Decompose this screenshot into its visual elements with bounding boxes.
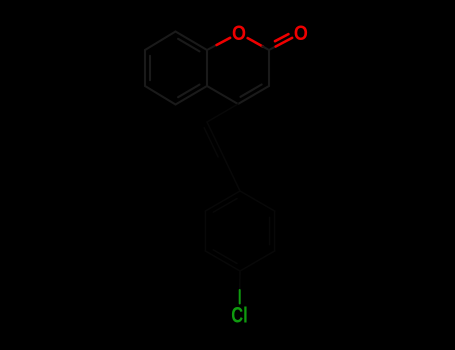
bond C2=O main line (red) — [276, 38, 292, 47]
bond Cpara-Cmeta2 (double) — [205, 251, 240, 271]
bond C8-C7 — [145, 32, 176, 51]
bond O-C2 oxygen half (red) — [248, 38, 263, 47]
bond C4-Ca vinyl single — [207, 104, 238, 122]
bond Cortho2-Cipso (double) — [205, 191, 240, 211]
bond C8a-C8 (double) — [176, 32, 208, 51]
bond Cortho1-Cmeta1 inner line — [269, 217, 271, 244]
bond O-C2 carbon stub — [262, 46, 269, 50]
svg-text:O: O — [232, 21, 246, 45]
svg-text:Cl: Cl — [231, 303, 248, 328]
bond C5-C4a inner line — [178, 85, 199, 98]
bond Cipso-Cortho1 — [240, 191, 275, 211]
bond Cortho1-Cmeta1 (double) — [274, 211, 276, 251]
bond Cortho2-Cipso inner line — [213, 199, 237, 213]
bond C6-C5 — [145, 86, 176, 105]
bond C8a-C8 inner line — [178, 39, 199, 52]
bond Ca=Cb vinyl double — [207, 122, 224, 157]
bond C5-C4a (double) — [176, 86, 208, 105]
bond Cpara-Cl chlorine half (green) — [239, 290, 241, 304]
bond Cb-Cipso — [224, 157, 241, 192]
bond C8a-O carbon half — [207, 45, 217, 50]
bond Cpara-Cl carbon half — [239, 271, 241, 291]
bond C7-C6 (double) — [144, 50, 146, 86]
bond C2=O carbon stub — [269, 46, 276, 50]
bond C2=O second line (red) — [275, 34, 288, 41]
bond Ca=Cb inner line — [204, 128, 218, 157]
bond Cmeta1-Cpara — [240, 251, 275, 271]
bond C8a-O oxygen half (red) — [217, 38, 231, 45]
bond C2-C3 — [268, 50, 270, 86]
bond C3=C4 — [238, 86, 269, 104]
bond C4-C4a — [207, 86, 238, 104]
bond C7-C6 inner line — [149, 56, 151, 80]
bond C4a-C8a (ring fusion) — [206, 50, 208, 86]
bond Cmeta2-Cortho2 — [204, 211, 206, 251]
svg-text:O: O — [294, 21, 308, 45]
bond C3=C4 inner line — [241, 85, 262, 97]
bond Cpara-Cmeta2 inner line — [213, 250, 237, 264]
